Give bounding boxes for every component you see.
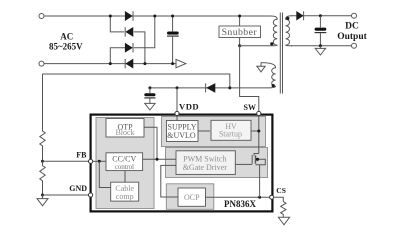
diode D2 [126,28,133,37]
transformer core [280,13,282,94]
node HV SW junction [257,130,260,133]
node snubber top [238,15,241,18]
svg-text:Snubber: Snubber [222,27,258,38]
wire bridge AC2 to D3 anode [110,48,125,64]
wire SW inner vertical [258,115,260,154]
node C1 bottom [171,62,174,65]
ground primary rail arrow [176,59,186,67]
node OTP junction [156,158,159,161]
pin FB [89,159,93,163]
ground aux arrow [260,63,262,67]
wire D2 anode to DC- [134,32,145,64]
pin SW [257,111,261,115]
diode D4 [126,59,133,68]
box HV Startup [211,120,251,140]
capacitor C2 VDD [149,88,151,93]
transistor Q1 mosfet [254,154,259,156]
node C1 top [171,15,174,18]
wire SW node to chip SW pin [240,46,271,111]
svg-text:&Gate Driver: &Gate Driver [183,163,228,172]
panel supply [162,117,266,147]
svg-text:control: control [115,163,134,171]
wire supply to HV [198,130,210,132]
capacitor C3 output [319,16,321,28]
wire CS inner [206,196,273,198]
wire VDD rail [150,87,268,89]
box CC/CV control [106,153,143,171]
node output cap top [319,14,322,17]
wire D3 cathode to DC+ [134,16,155,48]
box PWM Switch Gate Driver [176,151,235,175]
diode D6 output [297,12,303,20]
node FB [41,160,44,163]
terminal AC line2 [39,61,44,66]
wire AC2 bottom rail [44,63,176,65]
svg-text:Output: Output [337,32,367,42]
box Cable comp [111,182,139,201]
svg-text:Startup: Startup [219,130,242,139]
node DC+ junction [153,15,156,18]
node FB inner branch [98,160,101,163]
capacitor C1 bulk [172,16,174,31]
wire CS external [274,197,284,201]
diode D3 [125,43,132,52]
pin VDD [175,111,179,115]
node primary polarity dot [270,42,273,45]
wire FB to chip [43,160,89,162]
pin GND [89,193,93,197]
diode D1 [125,12,132,21]
svg-text:CS: CS [276,186,286,195]
pin CS [270,195,274,199]
wire HV to SW [251,130,259,132]
node bottom rail / D3 branch [109,62,112,65]
node VDD diode junction [228,86,231,89]
snubber branch wire top [239,16,241,26]
wire secondary top to output [291,15,351,17]
svg-text:FB: FB [76,150,87,159]
wire bridge AC1 to D2 cathode [110,16,124,32]
chip PN836X outline [91,115,273,212]
wire GND to chip [43,194,89,196]
svg-text:85~265V: 85~265V [49,42,83,52]
node VDD pin junction [176,86,179,89]
node DC- junction [143,62,146,65]
svg-text:PN836X: PN836X [224,199,256,209]
node aux polarity dot [272,84,275,87]
node top rail / D2 branch [109,15,112,18]
svg-text:DC: DC [345,21,359,31]
wire FB sense from aux [43,74,230,88]
panel pwm [166,148,268,178]
wire FB to cable comp [99,161,110,187]
box OCP [178,188,206,206]
terminal DC out minus [352,43,357,48]
node source CS junction [258,196,261,199]
ground VDD cap [145,103,155,110]
wire secondary bottom to output [291,45,351,47]
node GND junction [41,194,44,197]
svg-text:VDD: VDD [179,102,199,112]
svg-text:OCP: OCP [184,193,200,202]
svg-text:Block: Block [115,128,134,137]
snubber box [219,26,261,38]
node VDD cap junction [148,86,151,89]
resistor R2 FB lower [40,161,45,195]
svg-text:SW: SW [244,103,256,112]
panel ocp [166,184,214,210]
snubber branch wire bottom [239,38,241,46]
svg-text:comp: comp [116,192,134,201]
transformer primary winding [271,16,277,46]
terminal AC line1 [39,14,44,19]
wire VDD pin drop [176,88,178,113]
ground secondary [319,46,321,49]
node SW / snubber junction [238,44,241,47]
transformer secondary winding [286,16,292,46]
terminal DC out plus [352,13,357,18]
svg-text:AC: AC [60,32,73,42]
box OTP Block [106,119,144,138]
transformer aux winding [261,63,276,88]
node mosfet body dot [256,158,259,161]
resistor R3 CS [281,202,286,218]
ground FB divider [37,199,48,206]
box SUPPLY UVLO [167,121,199,142]
node secondary polarity dot [286,17,289,20]
wire OCP to PWM [161,165,178,197]
wire PWM to gate [235,163,247,165]
node output cap bottom [319,44,322,47]
resistor R1 FB upper [40,74,45,161]
svg-text:&UVLO: &UVLO [167,131,196,140]
wire CCCV to cable comp [124,171,126,183]
ground CS [278,217,289,225]
wire OTP to CCCV junction [144,127,157,159]
wire FB inner [91,160,106,162]
diode D5 VDD [207,84,215,93]
svg-text:GND: GND [69,184,87,193]
wire AC1 top rail [44,15,271,17]
wire CCCV to PWM [143,158,176,160]
wire VDD pin to supply [176,115,178,121]
panel left [96,118,154,209]
